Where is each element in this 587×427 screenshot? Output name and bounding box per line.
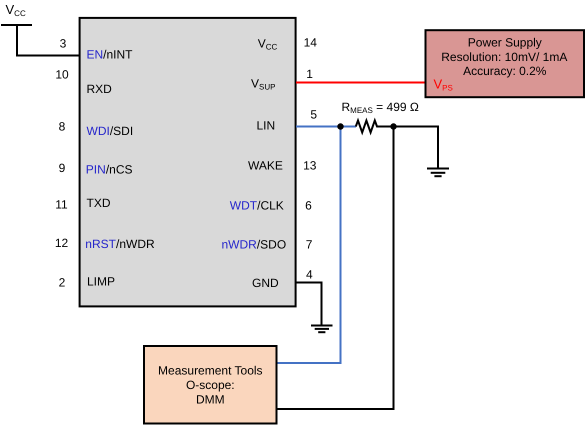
svg-text:Resolution: 10mV/ 1mA: Resolution: 10mV/ 1mA — [441, 50, 567, 64]
svg-text:7: 7 — [306, 237, 313, 251]
svg-text:WAKE: WAKE — [248, 159, 283, 173]
junction node B — [390, 123, 396, 129]
svg-text:LIN: LIN — [257, 119, 276, 133]
svg-text:3: 3 — [60, 37, 67, 51]
svg-text:GND: GND — [252, 276, 279, 290]
svg-text:Accuracy: 0.2%: Accuracy: 0.2% — [463, 64, 547, 78]
svg-text:nWDR/SDO: nWDR/SDO — [222, 237, 287, 251]
svg-text:12: 12 — [55, 236, 69, 250]
wire VSUP to power supply (red) — [296, 82, 426, 84]
measurement tools box M1 — [144, 346, 277, 424]
svg-text:11: 11 — [55, 197, 68, 211]
svg-text:PIN/nCS: PIN/nCS — [86, 162, 133, 176]
svg-text:EN/nINT: EN/nINT — [87, 48, 134, 62]
wire VCC rail to pin 3 — [17, 25, 80, 56]
wire node A to resistor (blue) — [341, 126, 357, 128]
svg-text:DMM: DMM — [196, 393, 225, 407]
svg-text:RXD: RXD — [87, 82, 113, 96]
svg-text:2: 2 — [59, 276, 66, 290]
wire node A down to measurement tools (blue) — [277, 127, 341, 364]
ground (at GND pin) — [311, 326, 333, 333]
wire node B down to measurement tools — [277, 127, 394, 410]
svg-text:Power Supply: Power Supply — [468, 35, 542, 49]
svg-text:O-scope:: O-scope: — [186, 378, 235, 392]
junction node A — [337, 123, 343, 129]
svg-text:LIMP: LIMP — [87, 275, 115, 289]
IC U1 (main transceiver box) — [80, 18, 296, 307]
svg-text:1: 1 — [306, 67, 313, 81]
svg-text:14: 14 — [304, 36, 318, 50]
svg-text:nRST/nWDR: nRST/nWDR — [85, 237, 155, 251]
svg-text:Measurement Tools: Measurement Tools — [158, 364, 263, 378]
svg-text:4: 4 — [306, 268, 313, 282]
svg-text:5: 5 — [310, 107, 317, 121]
svg-text:9: 9 — [59, 161, 66, 175]
svg-text:8: 8 — [59, 120, 66, 134]
wire node B to ground — [394, 127, 439, 168]
svg-text:10: 10 — [55, 68, 69, 82]
power supply box PS1 — [426, 30, 585, 97]
svg-text:WDT/CLK: WDT/CLK — [230, 199, 284, 213]
resistor RMEAS — [356, 121, 394, 133]
svg-text:6: 6 — [305, 198, 312, 212]
svg-text:TXD: TXD — [87, 196, 111, 210]
ground (near resistor) — [427, 169, 449, 177]
svg-text:WDI/SDI: WDI/SDI — [87, 124, 134, 138]
svg-text:13: 13 — [303, 158, 317, 172]
wire GND pin to ground — [296, 283, 322, 326]
wire LIN to node A (blue) — [296, 126, 341, 128]
power rail VCC — [1, 24, 32, 26]
